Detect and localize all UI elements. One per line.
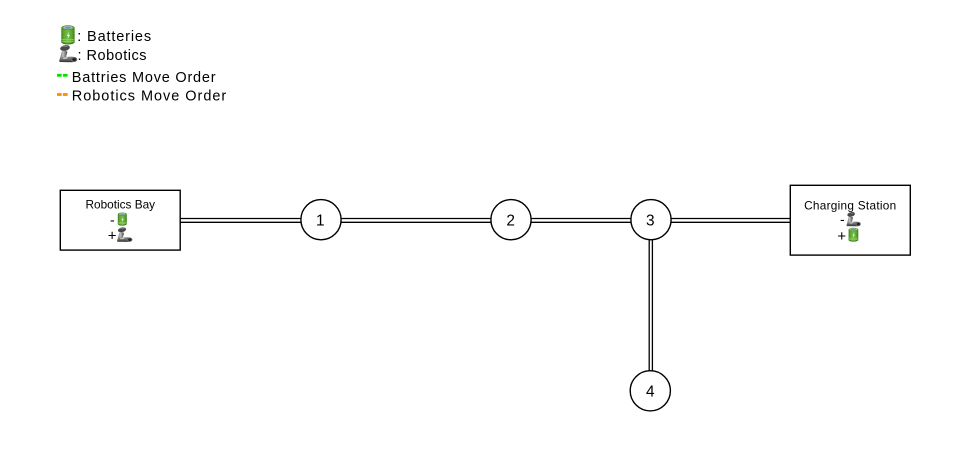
Robotics Bay robotics icon <box>117 226 132 241</box>
svg-text:1: 1 <box>316 212 325 229</box>
Robotics Bay battery icon <box>118 212 127 225</box>
svg-text:: Robotics: : Robotics <box>78 48 147 64</box>
svg-text:-: - <box>840 211 845 227</box>
svg-text:4: 4 <box>646 384 655 401</box>
node 3 <box>631 200 671 240</box>
wire node 2 to node 3 (lower rail) <box>530 221 632 223</box>
svg-text:+: + <box>108 227 117 244</box>
svg-text:: Batteries: : Batteries <box>77 29 152 45</box>
svg-text:-: - <box>110 212 115 228</box>
legend robotics icon <box>59 44 77 62</box>
Charging Station robotics icon <box>847 211 861 226</box>
node 1 <box>301 200 341 240</box>
legend orange dash sample <box>57 93 68 96</box>
legend battery icon <box>61 25 74 44</box>
svg-text:2: 2 <box>506 212 515 229</box>
svg-text:Robotics Bay: Robotics Bay <box>86 197 156 211</box>
wire Robotics Bay to node 1 (upper rail) <box>180 218 302 220</box>
wire node 1 to node 2 (upper rail) <box>340 218 492 220</box>
Charging Station battery icon <box>849 228 859 242</box>
wire node 3 to Charging Station (upper rail) <box>670 218 790 220</box>
node 2 <box>491 200 531 240</box>
svg-text:3: 3 <box>646 212 655 229</box>
wire Robotics Bay to node 1 (lower rail) <box>180 221 302 223</box>
wire node 3 to Charging Station (lower rail) <box>670 221 790 223</box>
wire node 3 to node 4 (right rail) <box>651 238 653 372</box>
svg-text:+: + <box>837 228 846 245</box>
svg-text:Battries Move Order: Battries Move Order <box>72 70 217 86</box>
wire node 1 to node 2 (lower rail) <box>340 221 492 223</box>
Robotics Bay box <box>60 190 180 250</box>
svg-text:Charging Station: Charging Station <box>804 199 896 213</box>
wire node 3 to node 4 (left rail) <box>648 238 650 372</box>
legend green dash sample <box>57 74 68 77</box>
wire node 2 to node 3 (upper rail) <box>530 218 632 220</box>
svg-text:Robotics Move Order: Robotics Move Order <box>72 89 227 105</box>
Charging Station box <box>790 185 910 255</box>
node 4 <box>630 371 670 411</box>
